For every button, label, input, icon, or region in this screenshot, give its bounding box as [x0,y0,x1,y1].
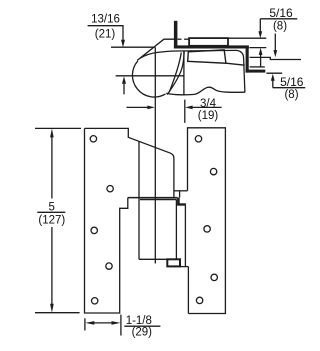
barrel right edge lower (front) [175,200,177,260]
hinge pin centerline (vertical, runs into front view) [154,47,156,263]
frame leaf plate left/bottom/right edges [85,128,128,313]
svg-text:(19): (19) [198,110,219,122]
door leaf plate top/right/bottom [188,128,226,314]
door leaf left fold curve (plan) [167,51,184,95]
svg-text:(29): (29) [132,327,153,339]
door leaf left edge curve (plan) [169,53,181,93]
dimension text 1-1/8 (29) [126,315,153,338]
screw hole L4 [106,263,112,269]
svg-text:(21): (21) [95,29,116,41]
screw hole R2 [210,168,216,174]
frame leaf fold diagonal (plan) [137,39,174,60]
screw hole R4 [211,274,217,280]
svg-text:(127): (127) [38,214,65,226]
dimension 1-1/8 (29): arrows [85,321,120,325]
strap top extension line (right) [228,37,266,39]
frame stop thick step vertical (right) [246,49,249,73]
barrel left edge (front) [138,142,140,260]
top view: frame face extension line (upper) [111,46,155,48]
dimension text 5 (127) [38,201,65,226]
screw hole R5 [196,297,202,303]
upper joint thick Z horizontal [177,203,186,205]
barrel bottom edge [139,258,176,260]
svg-text:5: 5 [48,201,54,213]
dimension 5 (127): extension lines [35,127,81,129]
upper joint small step vertical [179,191,181,198]
svg-text:1-1/8: 1-1/8 [126,315,152,327]
svg-text:5/16: 5/16 [269,6,293,20]
svg-text:(8): (8) [284,89,298,101]
dimension text 3/4 (19) [198,98,219,122]
door leaf left edge (mid) [184,205,186,267]
door edge vertical (plan) [183,51,185,95]
lower joint box [167,259,180,266]
surface leaf extension line (lower right) [266,72,282,74]
frame stop thick step bottom bar [246,70,266,73]
dimension 13/16 leader arrow down [121,26,125,48]
front view: frame leaf plate outline [85,128,174,197]
frame stop thick vertical bar [174,21,178,48]
dimension 5/16 top: leader + arrows [258,19,262,67]
door lower stub extension [250,66,265,68]
screw hole R1 [195,136,201,142]
svg-text:5/16: 5/16 [280,75,304,89]
upper joint shoulder line [174,190,188,192]
dimension 13/16 arrow up [122,76,126,94]
screw hole L1 [90,136,96,142]
screw hole R3 [204,226,210,232]
dimension 5/16 bottom: leader + arrows [271,34,277,88]
svg-text:(8): (8) [273,20,287,32]
screw hole L2 [107,186,113,192]
frame leaf surface strap (rect above bar) [189,38,228,46]
door face line right of strap [226,63,245,65]
door surface strap (tilted rect, plan) [188,50,226,63]
dimension text 5/16 (8) top [269,6,293,32]
screw hole L3 [91,227,97,233]
screw hole L5 [92,298,98,304]
knuckle barrel arc (plan) [132,61,165,97]
frame face stub line left of strap [178,38,182,40]
top view: hinge pin centerline extension (lower) [116,75,185,77]
door leaf right edge with corner (plan) [237,50,245,92]
door top face jogged extension line [250,57,301,59]
dimension text 5/16 (8) bottom [280,75,304,101]
knuckle joint line a [128,197,178,199]
dimension 3/4: arrows and extension [127,100,222,123]
svg-text:3/4: 3/4 [200,98,217,110]
door leaf left edge (lower) [187,267,189,314]
door leaf top surface curve (plan) [140,50,237,58]
lower joint step horizontal [180,266,188,268]
stop face extension line (right) [249,47,266,49]
upper joint thick Z vertical [177,198,180,205]
svg-text:13/16: 13/16 [91,14,120,26]
door leaf break line (wavy bottom) [166,87,245,95]
frame stop thick horizontal bar [174,45,249,48]
dimension 5 (127): vertical line + arrows [50,128,54,312]
knuckle joint line b [140,199,177,201]
dimension 1-1/8 (29): extension lines [84,318,86,330]
dimension text 13/16 (21) [91,14,120,41]
